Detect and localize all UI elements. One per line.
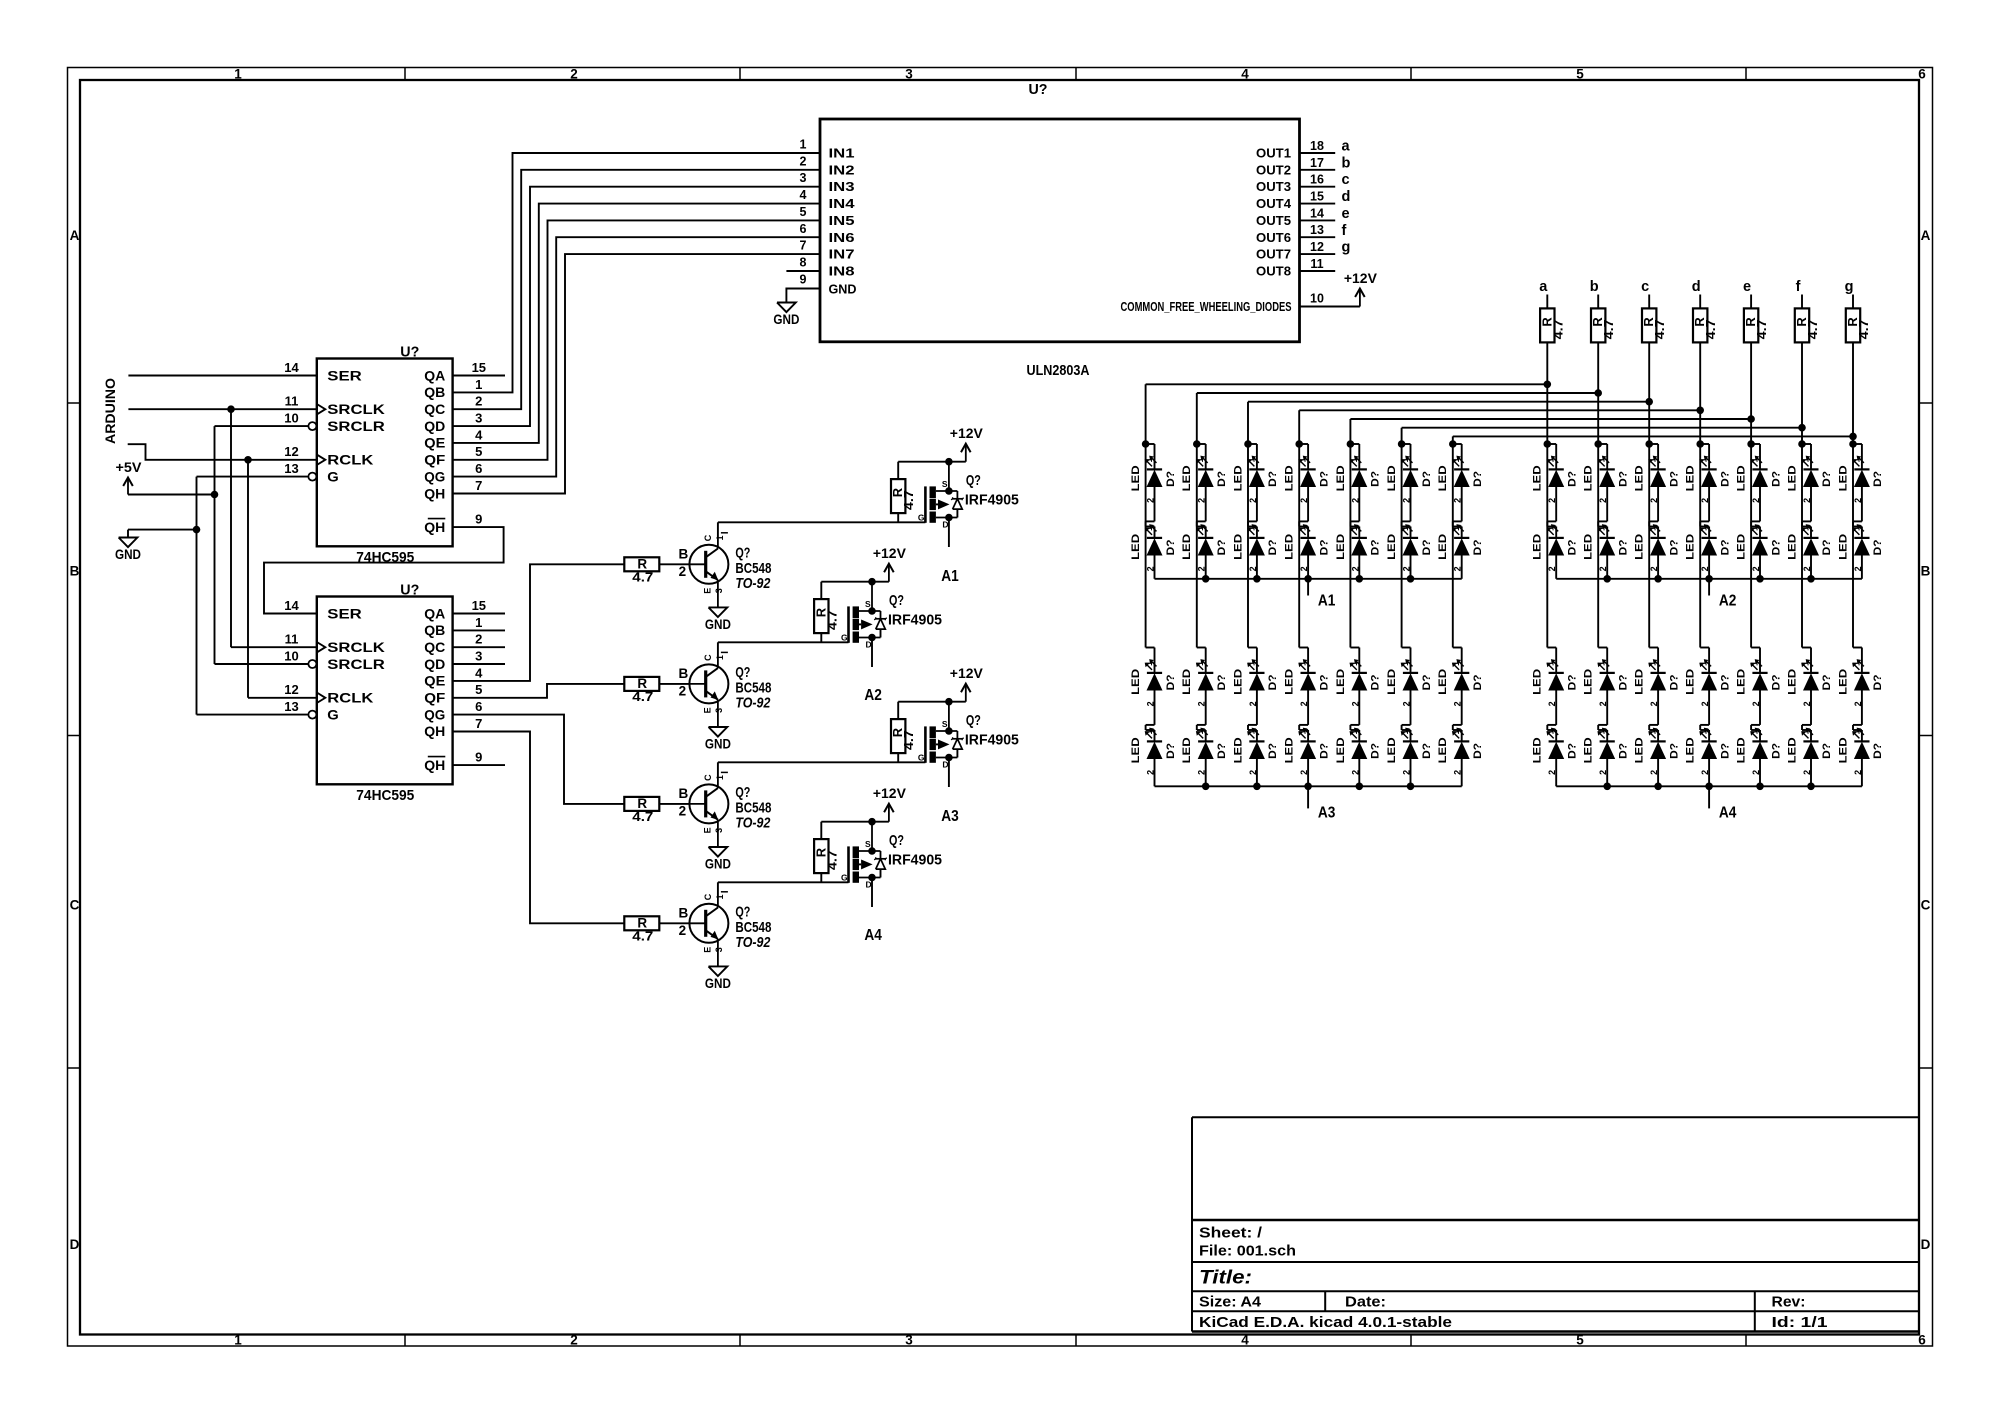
svg-text:1: 1	[1144, 729, 1154, 734]
junction row g	[1849, 433, 1857, 441]
wire block2 digit-bottom col d upper lead	[1708, 648, 1710, 673]
wire distribution row d	[1299, 409, 1700, 411]
svg-text:LED: LED	[1386, 737, 1398, 763]
svg-text:QH: QH	[424, 520, 445, 535]
wire block2 digit-top col g upper lead	[1861, 444, 1863, 469]
resistor R-QM4 R 4.7 (vertical)	[813, 839, 839, 873]
wire block2 digit-bottom col c upper lead	[1657, 648, 1659, 673]
svg-text:ARDUINO: ARDUINO	[103, 378, 118, 444]
wire collector Q4 to gate	[717, 882, 719, 897]
junction row e	[1747, 415, 1755, 423]
svg-text:4.7: 4.7	[1857, 319, 1871, 339]
wire block1 digit-top col f middle link	[1410, 487, 1412, 521]
ground stage 1 emitter	[705, 606, 731, 632]
wire label stub c	[1648, 295, 1650, 309]
svg-text:9: 9	[475, 750, 482, 765]
svg-text:9: 9	[800, 272, 807, 286]
resistor Rb1 R 4.7 (horizontal)	[624, 557, 659, 585]
resistor R-QM1 R 4.7 (vertical)	[890, 479, 916, 513]
wire jog into block1 digit-top col e	[1350, 443, 1359, 445]
svg-text:1: 1	[715, 775, 725, 780]
wire jog into block2 digit-top col f	[1802, 443, 1811, 445]
net label A1 stub	[1307, 579, 1309, 596]
svg-text:IRF4905: IRF4905	[888, 612, 942, 629]
wire label stub g	[1852, 295, 1854, 309]
wire QA stub U1	[453, 375, 505, 377]
resistor Rs-g R 4.7 (vertical)	[1845, 308, 1871, 342]
svg-text:12: 12	[284, 682, 298, 697]
junction bus A4 col c	[1654, 783, 1662, 791]
svg-text:1: 1	[1851, 526, 1861, 531]
svg-text:D?: D?	[1165, 539, 1177, 555]
wire block1 digit-top col f to bus	[1410, 556, 1412, 579]
svg-text:b: b	[1590, 279, 1599, 295]
wire block2 digit-bottom col b middle link	[1606, 691, 1608, 725]
wire jog into block1 digit-bottom col f	[1402, 647, 1411, 649]
power +12V QM2	[873, 545, 907, 582]
wire block1 digit-bottom col g middle link	[1461, 691, 1463, 725]
wire block2 digit-top col e middle link	[1759, 487, 1761, 521]
wire segment column g (right block)	[1852, 342, 1854, 647]
svg-text:A: A	[1921, 228, 1931, 243]
wire G row U1	[197, 476, 309, 478]
title block	[1192, 1117, 1919, 1331]
wire label stub a	[1546, 295, 1548, 309]
wire label stub f	[1801, 295, 1803, 309]
svg-text:2: 2	[679, 923, 687, 938]
LED block2 digit-bottom col d upper (D?)	[1685, 659, 1732, 706]
LED block1 digit-bottom col d upper (D?)	[1284, 659, 1331, 706]
LED block2 digit-bottom col f upper (D?)	[1787, 659, 1834, 706]
svg-text:4.7: 4.7	[902, 490, 916, 510]
svg-text:7: 7	[475, 716, 482, 731]
wire U1 QH to ULN IN7	[453, 254, 820, 493]
svg-text:1: 1	[1451, 526, 1461, 531]
vertical bus SRCLR	[214, 426, 216, 664]
wire block2 digit-bottom col g upper lead	[1861, 648, 1863, 673]
svg-text:RCLK: RCLK	[327, 691, 373, 706]
svg-text:LED: LED	[1437, 669, 1449, 695]
LED block2 digit-bottom col e lower (D?)	[1736, 728, 1783, 775]
wire SRCLK row U2	[231, 646, 317, 648]
svg-text:D: D	[942, 760, 948, 770]
svg-text:D: D	[866, 880, 872, 890]
wire block2 digit-bottom col f middle link	[1810, 691, 1812, 725]
svg-text:B: B	[679, 546, 689, 561]
svg-text:SRCLR: SRCLR	[327, 419, 385, 434]
svg-text:D?: D?	[1421, 674, 1433, 690]
wire bus A1	[1155, 578, 1462, 580]
wire block1 digit-bottom col c middle link	[1256, 691, 1258, 725]
svg-text:D?: D?	[1472, 471, 1484, 487]
svg-text:S: S	[865, 839, 871, 849]
wire block1 digit-top col d to bus	[1307, 556, 1309, 579]
svg-text:Q?: Q?	[735, 784, 750, 801]
wire U1 QF to ULN IN5	[453, 220, 820, 459]
svg-text:1: 1	[1597, 457, 1607, 462]
svg-text:QF: QF	[424, 453, 445, 468]
wire U2 QH to stage 4 base resistor	[453, 732, 625, 924]
wire block1 digit-bottom col b upper lead	[1205, 648, 1207, 673]
svg-text:c: c	[1342, 172, 1350, 188]
LED block1 digit-bottom col g lower (D?)	[1437, 728, 1484, 775]
svg-text:LED: LED	[1284, 669, 1296, 695]
junction bus A2 col c	[1654, 575, 1662, 583]
wire block2 digit-top col c middle link	[1657, 487, 1659, 521]
svg-text:1: 1	[1851, 729, 1861, 734]
svg-text:3: 3	[714, 947, 724, 952]
wire jog into block2 digit-bottom col f	[1802, 647, 1811, 649]
svg-text:LED: LED	[1532, 465, 1544, 491]
svg-text:LED: LED	[1685, 737, 1697, 763]
junction dot column block1 digit-top col f	[1398, 440, 1406, 448]
svg-text:4: 4	[475, 427, 483, 442]
wire block2 digit-bottom col a middle link	[1555, 691, 1557, 725]
wire block1 digit-top col a to bus	[1154, 556, 1156, 579]
svg-text:1: 1	[1648, 661, 1658, 666]
LED block1 digit-bottom col g upper (D?)	[1437, 659, 1484, 706]
svg-text:S: S	[942, 719, 948, 729]
svg-text:e: e	[1342, 206, 1350, 222]
svg-text:D?: D?	[1318, 539, 1330, 555]
svg-text:LED: LED	[1181, 534, 1193, 560]
svg-text:Q?: Q?	[889, 832, 904, 849]
LED block1 digit-top col c upper (D?)	[1232, 456, 1279, 503]
resistor R 4.7 gate pull-up for QM2	[813, 582, 872, 643]
junction bus A1 col b	[1202, 575, 1210, 583]
svg-text:D?: D?	[1770, 539, 1782, 555]
svg-text:2: 2	[679, 683, 687, 698]
wire U1 QC to ULN IN2	[453, 170, 820, 409]
shift register U2 74HC595	[284, 582, 486, 805]
svg-text:15: 15	[472, 598, 486, 613]
wire jog into block1 digit-bottom col c	[1248, 647, 1257, 649]
wire block1 digit-bottom col a middle link	[1154, 691, 1156, 725]
svg-text:11: 11	[285, 394, 299, 409]
svg-text:3: 3	[905, 1333, 913, 1348]
svg-text:1: 1	[1298, 526, 1308, 531]
LED block2 digit-top col b lower (D?)	[1583, 524, 1630, 571]
wire block1 digit-bottom col a upper lead	[1154, 648, 1156, 673]
wire block1 digit-bottom col g to bus	[1461, 759, 1463, 786]
svg-text:G: G	[918, 753, 925, 763]
svg-text:+12V: +12V	[950, 425, 984, 441]
junction bus A2 col f	[1807, 575, 1815, 583]
svg-text:1: 1	[1298, 661, 1308, 666]
LED block2 digit-top col g lower (D?)	[1837, 524, 1884, 571]
vertical bus SRCLK	[230, 409, 232, 647]
svg-text:SRCLK: SRCLK	[327, 402, 385, 417]
svg-text:D?: D?	[1668, 471, 1680, 487]
svg-text:4.7: 4.7	[1704, 319, 1718, 339]
LED block2 digit-top col f upper (D?)	[1787, 456, 1834, 503]
wire block2 digit-top col b upper lead	[1606, 444, 1608, 469]
wire block1 digit-top col c upper lead	[1256, 444, 1258, 469]
svg-text:D?: D?	[1216, 743, 1228, 759]
svg-text:74HC595: 74HC595	[356, 787, 414, 804]
svg-text:Rev:: Rev:	[1772, 1294, 1806, 1311]
svg-text:E: E	[702, 588, 712, 594]
power +12V QM4	[873, 785, 907, 822]
wire jog into block1 digit-bottom col a	[1146, 647, 1155, 649]
svg-text:LED: LED	[1837, 737, 1849, 763]
svg-text:1: 1	[234, 1333, 242, 1348]
svg-text:13: 13	[1310, 223, 1324, 237]
wire distribution row g	[1453, 435, 1853, 437]
wire jog into block2 digit-top col b	[1598, 443, 1607, 445]
svg-text:LED: LED	[1130, 737, 1142, 763]
svg-text:QB: QB	[424, 385, 445, 400]
ground stage 3 emitter	[705, 846, 731, 872]
svg-text:D?: D?	[1872, 674, 1884, 690]
transistor Q1 BC548 TO-92 (NPN)	[679, 533, 772, 608]
resistor Rs-a R 4.7 (vertical)	[1539, 308, 1565, 342]
svg-text:D?: D?	[1165, 743, 1177, 759]
LED block2 digit-bottom col e upper (D?)	[1736, 659, 1783, 706]
svg-text:1: 1	[1246, 526, 1256, 531]
svg-text:GND: GND	[705, 976, 731, 991]
wire jog into block1 digit-bottom col d	[1299, 647, 1308, 649]
svg-text:2: 2	[679, 564, 687, 579]
svg-text:OUT8: OUT8	[1256, 265, 1291, 279]
wire U2 stub pin 1	[453, 629, 505, 631]
junction dot column block1 digit-top col e	[1347, 440, 1355, 448]
power node +12V for QM1	[945, 425, 983, 465]
resistor R-QM3 R 4.7 (vertical)	[890, 719, 916, 753]
svg-text:A2: A2	[864, 687, 882, 704]
wire jog into block2 digit-bottom col d	[1700, 647, 1709, 649]
svg-text:D?: D?	[1267, 743, 1279, 759]
svg-text:1: 1	[234, 67, 242, 82]
LED block1 digit-bottom col a lower (D?)	[1130, 728, 1177, 775]
wire jog into block1 digit-top col f	[1402, 443, 1411, 445]
svg-text:5: 5	[800, 205, 807, 219]
svg-text:1: 1	[1801, 457, 1811, 462]
svg-text:QE: QE	[424, 674, 445, 689]
wire U2 stub pin 2	[453, 646, 505, 648]
svg-text:D?: D?	[1567, 743, 1579, 759]
svg-text:D?: D?	[1618, 471, 1630, 487]
wire U1 QG to ULN IN6	[453, 237, 820, 476]
junction bus A2 col b	[1603, 575, 1611, 583]
wire block1 digit-top col f upper lead	[1410, 444, 1412, 469]
svg-text:B: B	[679, 666, 689, 681]
junction dot column block2 digit-top col b	[1594, 440, 1602, 448]
LED block2 digit-bottom col c upper (D?)	[1634, 659, 1681, 706]
svg-text:1: 1	[1851, 457, 1861, 462]
wire bus A2	[1556, 578, 1862, 580]
svg-text:D?: D?	[1370, 471, 1382, 487]
svg-text:B: B	[70, 564, 80, 579]
svg-text:LED: LED	[1685, 465, 1697, 491]
svg-text:Q?: Q?	[735, 903, 750, 920]
svg-text:4.7: 4.7	[1602, 319, 1616, 339]
LED block1 digit-top col b lower (D?)	[1181, 524, 1228, 571]
svg-text:QB: QB	[424, 623, 445, 638]
wire label stub e	[1750, 295, 1752, 309]
wire U2 QF to stage 2 base resistor	[453, 684, 625, 698]
svg-text:LED: LED	[1437, 534, 1449, 560]
junction bus A1 col c	[1253, 575, 1261, 583]
svg-text:LED: LED	[1634, 465, 1646, 491]
svg-text:IRF4905: IRF4905	[888, 852, 942, 869]
svg-text:Q?: Q?	[966, 472, 981, 489]
svg-text:IRF4905: IRF4905	[965, 492, 1019, 509]
wire block2 digit-bottom col a to bus	[1555, 759, 1557, 786]
svg-text:LED: LED	[1634, 669, 1646, 695]
svg-text:4.7: 4.7	[632, 689, 653, 704]
svg-text:LED: LED	[1787, 465, 1799, 491]
svg-text:1: 1	[1246, 661, 1256, 666]
LED block2 digit-top col a lower (D?)	[1532, 524, 1579, 571]
svg-text:6: 6	[800, 222, 807, 236]
svg-text:LED: LED	[1130, 534, 1142, 560]
svg-text:LED: LED	[1583, 534, 1595, 560]
LED block2 digit-top col f lower (D?)	[1787, 524, 1834, 571]
svg-text:7: 7	[475, 478, 482, 493]
svg-text:IN1: IN1	[829, 147, 855, 161]
svg-text:4.7: 4.7	[825, 610, 839, 630]
wire segment column b (right block)	[1597, 342, 1599, 647]
wire segment column c (left block)	[1247, 402, 1249, 648]
svg-text:14: 14	[1310, 206, 1324, 220]
svg-text:U?: U?	[400, 582, 419, 599]
svg-text:C: C	[703, 893, 713, 900]
svg-text:LED: LED	[1437, 737, 1449, 763]
svg-text:LED: LED	[1532, 737, 1544, 763]
wire block2 digit-top col b to bus	[1606, 556, 1608, 579]
svg-text:4.7: 4.7	[1551, 319, 1565, 339]
svg-text:13: 13	[284, 461, 298, 476]
wire base resistor to Q4	[659, 922, 689, 924]
junction bus A4 col e	[1756, 783, 1764, 791]
svg-text:D?: D?	[1472, 674, 1484, 690]
svg-text:D?: D?	[1421, 539, 1433, 555]
svg-text:1: 1	[1546, 457, 1556, 462]
LED block1 digit-bottom col d lower (D?)	[1284, 728, 1331, 775]
ground logic GND	[115, 537, 141, 563]
wire segment column c (right block)	[1648, 342, 1650, 647]
svg-text:16: 16	[1310, 173, 1324, 187]
LED block1 digit-bottom col b upper (D?)	[1181, 659, 1228, 706]
power +12V QM1	[950, 425, 984, 462]
ground ULN GND	[773, 302, 799, 328]
junction row c	[1645, 398, 1653, 406]
wire block1 digit-top col d upper lead	[1307, 444, 1309, 469]
junction bus A2 col e	[1756, 575, 1764, 583]
junction row b	[1594, 389, 1602, 397]
drain wire of QM3	[948, 758, 950, 788]
svg-text:D: D	[1921, 1237, 1931, 1252]
wire block2 digit-bottom col b upper lead	[1606, 648, 1608, 673]
resistor R 4.7 gate pull-up for QM1	[890, 462, 949, 523]
svg-text:Q?: Q?	[889, 592, 904, 609]
junction dot column block1 digit-top col a	[1142, 440, 1150, 448]
resistor Rb2 R 4.7 (horizontal)	[624, 676, 659, 704]
svg-text:TO-92: TO-92	[735, 694, 771, 711]
LED block1 digit-top col a upper (D?)	[1130, 456, 1177, 503]
svg-text:D?: D?	[1821, 743, 1833, 759]
svg-text:B: B	[1921, 564, 1931, 579]
svg-text:D?: D?	[1719, 539, 1731, 555]
svg-text:1: 1	[1597, 526, 1607, 531]
svg-text:QD: QD	[424, 657, 445, 672]
svg-text:E: E	[702, 707, 712, 713]
svg-text:e: e	[1743, 279, 1751, 295]
transistor QM2 IRF4905 (P-MOSFET)	[841, 582, 942, 704]
svg-text:1: 1	[1246, 457, 1256, 462]
svg-text:6: 6	[475, 461, 482, 476]
junction bus A1 col f	[1407, 575, 1415, 583]
wire block2 digit-top col d middle link	[1708, 487, 1710, 521]
svg-text:E: E	[702, 827, 712, 833]
svg-text:2: 2	[570, 67, 578, 82]
drain wire of QM2	[871, 638, 873, 668]
wire jog into block2 digit-bottom col b	[1598, 647, 1607, 649]
svg-text:GND: GND	[705, 737, 731, 752]
wire segment column e (right block)	[1750, 342, 1752, 647]
wire block2 digit-top col a middle link	[1555, 487, 1557, 521]
wire U2 stub pin 9	[453, 764, 505, 766]
svg-text:6: 6	[475, 699, 482, 714]
resistor Rb3 R 4.7 (horizontal)	[624, 796, 659, 824]
svg-text:LED: LED	[1787, 534, 1799, 560]
svg-text:Q?: Q?	[735, 664, 750, 681]
svg-text:5: 5	[1576, 67, 1584, 82]
svg-text:d: d	[1692, 279, 1701, 295]
svg-text:12: 12	[284, 444, 298, 459]
svg-text:1: 1	[1349, 729, 1359, 734]
LED block1 digit-top col a lower (D?)	[1130, 524, 1177, 571]
ground stage 4 emitter	[705, 965, 731, 991]
junction row f	[1798, 424, 1806, 432]
svg-text:LED: LED	[1532, 669, 1544, 695]
wire IN8 stub	[786, 270, 820, 272]
darlington array U? ULN2803A	[800, 81, 1336, 379]
svg-text:D?: D?	[1567, 539, 1579, 555]
svg-text:1: 1	[1699, 457, 1709, 462]
LED block1 digit-bottom col e upper (D?)	[1335, 659, 1382, 706]
wire RCLK row U2	[248, 697, 317, 699]
wire U2 stub pin 3	[453, 663, 505, 665]
wire jog into block1 digit-bottom col g	[1453, 647, 1462, 649]
wire block1 digit-bottom col f middle link	[1410, 691, 1412, 725]
svg-text:D?: D?	[1668, 674, 1680, 690]
wire block2 digit-top col d upper lead	[1708, 444, 1710, 469]
wire distribution row f	[1402, 427, 1802, 429]
LED block2 digit-bottom col d lower (D?)	[1685, 728, 1732, 775]
resistor Rs-b R 4.7 (vertical)	[1590, 308, 1616, 342]
svg-text:f: f	[1796, 279, 1801, 295]
transistor Q4 BC548 TO-92 (NPN)	[679, 892, 772, 967]
junction bus A3 col d	[1304, 783, 1312, 791]
LED block2 digit-top col b upper (D?)	[1583, 456, 1630, 503]
svg-text:2: 2	[475, 394, 482, 409]
svg-text:LED: LED	[1837, 465, 1849, 491]
svg-text:LED: LED	[1736, 534, 1748, 560]
transistor Q2 BC548 TO-92 (NPN)	[679, 652, 772, 727]
svg-text:LED: LED	[1130, 669, 1142, 695]
svg-text:+12V: +12V	[873, 785, 907, 801]
svg-text:1: 1	[1400, 729, 1410, 734]
svg-text:11: 11	[285, 632, 299, 647]
wire jog into block2 digit-top col e	[1751, 443, 1760, 445]
wire block2 digit-bottom col f upper lead	[1810, 648, 1812, 673]
svg-text:GND: GND	[705, 617, 731, 632]
svg-text:D?: D?	[1618, 539, 1630, 555]
vertical bus RCLK	[247, 460, 249, 698]
wire block1 digit-bottom col c to bus	[1256, 759, 1258, 786]
